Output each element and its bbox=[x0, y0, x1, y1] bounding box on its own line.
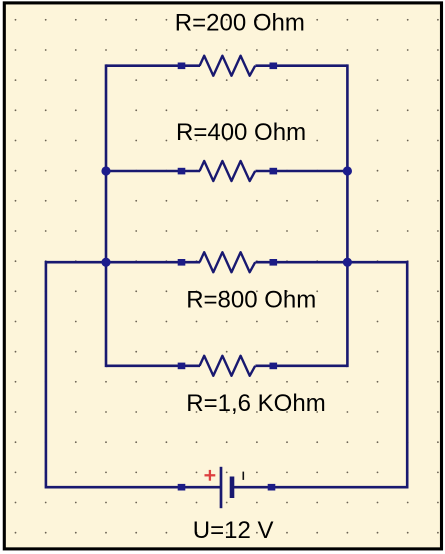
junction node left-R3 bbox=[101, 258, 110, 267]
svg-text:R=800 Ohm: R=800 Ohm bbox=[186, 286, 316, 313]
junction node right-R2 bbox=[343, 166, 352, 175]
wire: R4 row horizontal left bbox=[106, 364, 200, 367]
resistor R1 zigzag (R=200 Ohm) bbox=[200, 56, 256, 76]
svg-text:U=12 V: U=12 V bbox=[193, 517, 274, 544]
wire: R3 row horizontal left (to outer loop) bbox=[45, 261, 200, 264]
wire: inner left vertical bus bbox=[105, 64, 108, 367]
resistor R4 left pad bbox=[178, 363, 186, 370]
resistor R1 left pad bbox=[178, 63, 186, 70]
junction node left-R2 bbox=[101, 166, 110, 175]
resistor R2 right pad bbox=[270, 168, 278, 175]
svg-text:R=1,6 KOhm: R=1,6 KOhm bbox=[186, 390, 325, 417]
resistor R3 left pad bbox=[178, 259, 186, 266]
wire: R1 row horizontal left bbox=[106, 64, 200, 67]
battery U1 short plate (negative) bbox=[230, 477, 235, 499]
resistor R2 left pad bbox=[178, 168, 186, 175]
wire: battery row left bbox=[46, 486, 220, 489]
resistor R4 zigzag (R=1,6 KOhm) bbox=[200, 356, 256, 376]
wire: R1 row horizontal right bbox=[255, 64, 347, 67]
wire: R3 row horizontal right (to outer loop) bbox=[255, 261, 408, 264]
wire: battery row right bbox=[232, 486, 407, 489]
svg-text:R=400 Ohm: R=400 Ohm bbox=[176, 119, 306, 146]
resistor R4 right pad bbox=[270, 363, 278, 370]
wire: inner right vertical bus bbox=[346, 64, 349, 367]
wire: R4 row horizontal right bbox=[255, 364, 347, 367]
resistor R3 right pad bbox=[270, 259, 278, 266]
wire: R2 row horizontal left bbox=[106, 170, 200, 173]
battery plus polarity mark bbox=[205, 470, 216, 481]
resistor R2 zigzag (R=400 Ohm) bbox=[200, 161, 256, 181]
svg-text:R=200 Ohm: R=200 Ohm bbox=[175, 9, 305, 36]
battery minus polarity tick bbox=[242, 472, 244, 480]
wire: R2 row horizontal right bbox=[255, 170, 347, 173]
wire: outer left vertical bbox=[45, 261, 48, 489]
battery U1 right pad bbox=[268, 484, 276, 491]
resistor R1 right pad bbox=[270, 63, 278, 70]
battery U1 long plate (positive) bbox=[220, 467, 223, 508]
junction node right-R3 bbox=[343, 258, 352, 267]
battery U1 left pad bbox=[178, 484, 186, 491]
resistor R3 zigzag (R=800 Ohm) bbox=[200, 252, 256, 272]
wire: outer right vertical bbox=[406, 261, 409, 489]
